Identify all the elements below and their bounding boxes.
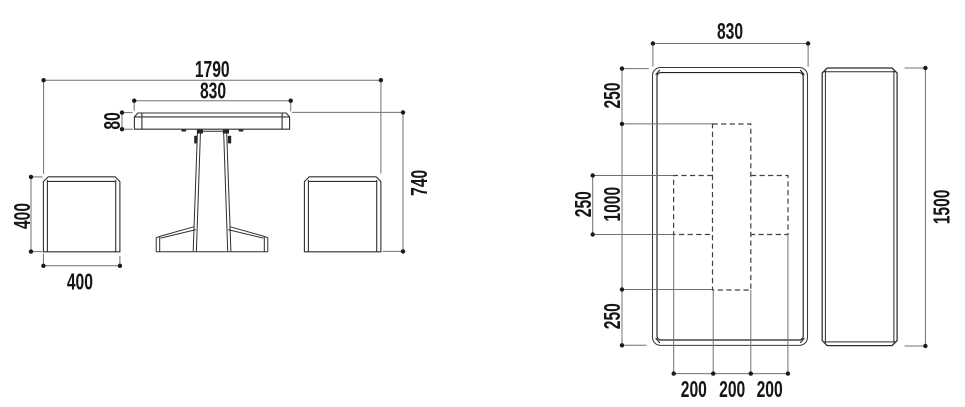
left stool (front view) xyxy=(43,177,120,252)
dimension chain 250/1000/250 (plan left inner) xyxy=(622,69,712,346)
svg-text:830: 830 xyxy=(717,19,743,45)
svg-text:250: 250 xyxy=(600,303,626,329)
dimension 830 (table top width, elevation) xyxy=(134,101,291,112)
dimension 1500 (plan length) xyxy=(905,68,926,346)
dimension 250 (plan left outer, base wing) xyxy=(593,176,673,235)
dimension 830 (plan top width) xyxy=(653,44,808,67)
svg-text:250: 250 xyxy=(600,82,626,108)
table top (front elevation) xyxy=(134,113,289,129)
dimension 400 (stool width) xyxy=(43,254,120,269)
pedestal base xyxy=(156,227,268,252)
svg-text:740: 740 xyxy=(407,170,433,196)
svg-text:830: 830 xyxy=(200,79,226,105)
right stool (front view) xyxy=(304,177,381,252)
table top side view (plan right) xyxy=(822,68,897,346)
dimension 740 (table height) xyxy=(292,112,403,251)
svg-text:200: 200 xyxy=(681,377,707,403)
dimension chain 200/200/200 (plan bottom) xyxy=(674,235,788,374)
pedestal column xyxy=(193,131,231,251)
svg-text:400: 400 xyxy=(67,270,93,296)
svg-text:400: 400 xyxy=(10,203,36,229)
dashed base right wing xyxy=(751,176,788,235)
svg-text:250: 250 xyxy=(571,191,597,217)
dashed pedestal column footprint xyxy=(713,124,751,290)
dimension 1790 (overall width) xyxy=(44,80,381,174)
dimension 80 (table top thickness) xyxy=(122,113,133,130)
svg-text:200: 200 xyxy=(757,377,783,403)
dashed base left wing xyxy=(674,176,713,235)
table top mounting clips xyxy=(182,130,244,144)
svg-text:1500: 1500 xyxy=(930,189,956,224)
table top plan outline xyxy=(653,68,808,346)
dimension 400 (stool height) xyxy=(31,177,43,252)
svg-text:200: 200 xyxy=(719,377,745,403)
svg-text:80: 80 xyxy=(100,112,126,129)
table top plan inner edge xyxy=(656,70,805,343)
svg-text:1000: 1000 xyxy=(600,187,626,222)
